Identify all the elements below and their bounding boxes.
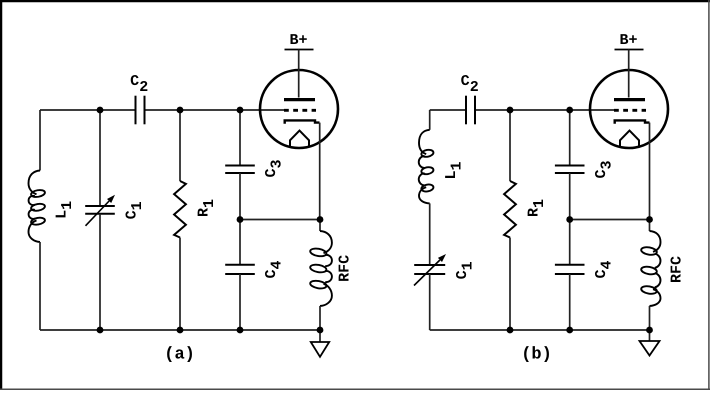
border frame: [0, 0, 710, 2]
tube cathode: [285, 120, 320, 123]
tube plate (anode): [614, 98, 645, 101]
wire: RFC to bottom (b): [649, 306, 651, 330]
node dot bottom RFC (b): [646, 327, 653, 334]
capacitor C3 (a): [225, 165, 255, 167]
wire: bottom bus (a): [40, 329, 320, 331]
inductor L1 (a): [29, 171, 46, 243]
capacitor C2 (b): [465, 96, 467, 125]
tube plate (anode): [284, 98, 315, 101]
node dot mid RFC (b): [646, 216, 653, 223]
ground (b): [649, 330, 651, 341]
wire: top bus right of C2 (a): [145, 109, 285, 111]
capacitor C4 (a): [225, 264, 255, 266]
wire: top bus left of C2 (b): [430, 109, 466, 111]
capacitor C3 (b): [555, 165, 585, 167]
choke RFC (a): [319, 220, 321, 232]
svg-text:(a): (a): [164, 346, 195, 365]
B+ supply terminal bar: [615, 49, 644, 51]
svg-text:RFC: RFC: [669, 256, 686, 283]
wire: top bus left of C2 (a): [40, 109, 136, 111]
ground (a): [319, 330, 321, 342]
inductor L1 (b): [419, 130, 434, 204]
wire: RFC to bottom (a): [319, 306, 321, 330]
tube cathode: [615, 120, 650, 123]
wire: L1 to C1 (b): [429, 203, 431, 265]
wire B+ to plate: [298, 50, 300, 98]
node dot mid C3C4 (a): [237, 216, 244, 223]
svg-text:(b): (b): [521, 346, 552, 365]
node dot top C3 (a): [237, 107, 244, 114]
node dot mid C3C4 (b): [566, 216, 573, 223]
wire: bottom bus (b): [430, 329, 650, 331]
B+ supply terminal bar: [285, 49, 314, 51]
wire: R1 branch upper (a): [179, 110, 181, 181]
wire: C1 branch lower (a): [99, 214, 101, 330]
wire: R1 branch lower (b): [509, 238, 511, 331]
tube grid (dashed): [284, 109, 316, 112]
wire: C1 to bottom (b): [429, 274, 431, 330]
wire: R1 branch upper (b): [509, 110, 511, 181]
capacitor C4 (b): [555, 264, 585, 266]
wire: mid node to RFC (a): [240, 219, 320, 221]
svg-text:B+: B+: [619, 32, 637, 49]
svg-text:RFC: RFC: [337, 255, 354, 282]
vacuum-tube envelope: [260, 70, 338, 148]
vacuum-tube envelope: [590, 70, 668, 148]
wire: left branch top (b): [429, 110, 431, 130]
wire B+ to plate: [628, 50, 630, 98]
wire: C3 to C4 (b): [569, 173, 571, 265]
wire: top bus right of C2 (b): [475, 109, 614, 111]
wire: cathode lead down (b): [649, 123, 651, 220]
tube heater filament: [290, 131, 309, 148]
wire: cathode lead down (a): [319, 123, 321, 220]
node dot top R1 (a): [177, 107, 184, 114]
capacitor C2 (a): [135, 96, 137, 125]
tube heater filament: [620, 131, 639, 148]
node dot bottom C4 (a): [237, 327, 244, 334]
wire: C1 branch upper (a): [99, 110, 101, 206]
choke RFC (b): [649, 220, 651, 232]
variable capacitor C1 (a): [85, 205, 115, 207]
node dot top C3 (b): [566, 107, 573, 114]
wire: C3 to C4 (a): [239, 173, 241, 265]
wire: R1 branch lower (a): [179, 238, 181, 331]
resistor R1 (b): [504, 181, 516, 238]
wire: left branch upper (a): [39, 110, 41, 171]
node dot bottom R1 (a): [177, 327, 184, 334]
node dot bottom R1 (b): [507, 327, 514, 334]
variable capacitor C1 (b): [414, 264, 445, 266]
wire: C3 branch upper (a): [239, 110, 241, 166]
node dot bottom C1 (a): [97, 327, 104, 334]
wire: mid node to RFC (b): [570, 219, 650, 221]
tube grid (dashed): [614, 109, 646, 112]
node dot top C1 (a): [97, 107, 104, 114]
wire: left branch lower (a): [39, 242, 41, 330]
node dot top R1 (b): [507, 107, 514, 114]
wire: C4 to bottom (b): [569, 274, 571, 330]
node dot bottom C4 (b): [566, 327, 573, 334]
wire: C3 branch upper (b): [569, 110, 571, 166]
svg-text:B+: B+: [289, 32, 307, 49]
node dot bottom RFC (a): [317, 327, 324, 334]
node dot mid RFC (a): [317, 216, 324, 223]
wire: C4 to bottom (a): [239, 274, 241, 330]
resistor R1 (a): [174, 181, 186, 238]
